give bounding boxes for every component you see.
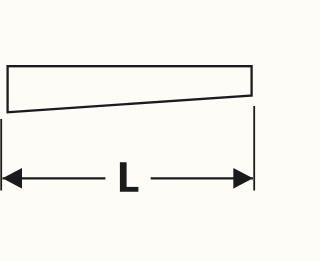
- right arrowhead: [233, 168, 253, 189]
- right extension line: [253, 106, 255, 191]
- left extension line: [0, 119, 2, 191]
- dimension line left segment: [3, 177, 106, 179]
- tapered panel outline: [8, 66, 252, 112]
- dimension line right segment: [151, 177, 253, 179]
- left arrowhead: [3, 168, 23, 189]
- label L: [120, 162, 138, 192]
